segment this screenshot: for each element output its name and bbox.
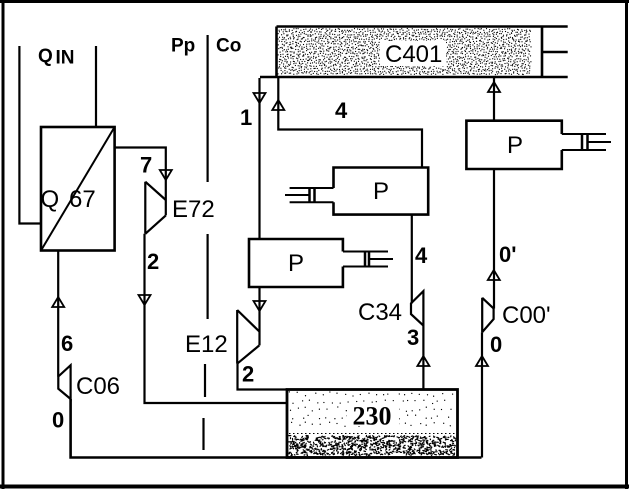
flow arrow [272, 100, 284, 110]
svg-text:6: 6 [61, 331, 73, 356]
svg-text:67: 67 [69, 186, 96, 213]
pump P left [249, 239, 343, 287]
wire right P down [493, 169, 495, 309]
wire QIN left [19, 46, 41, 224]
flow arrow [52, 297, 64, 307]
svg-text:4: 4 [415, 243, 428, 268]
wire P left out [258, 287, 260, 345]
svg-text:0: 0 [52, 408, 64, 433]
wire 1 line [258, 78, 260, 239]
flow arrow [254, 301, 266, 311]
pump P right [466, 121, 561, 169]
svg-text:Q: Q [41, 186, 60, 213]
valve C00' [482, 298, 493, 332]
wire 4 line top [278, 78, 422, 168]
wire C34 out [422, 326, 424, 390]
wire Pp/Co divider [207, 35, 209, 182]
flow arrow [488, 270, 500, 280]
flow arrow [476, 356, 488, 366]
flow arrow [160, 170, 172, 180]
svg-text:Q: Q [38, 46, 53, 67]
svg-text:P: P [373, 178, 389, 205]
flow arrow [488, 82, 500, 92]
svg-text:C401: C401 [385, 41, 442, 68]
pump P middle [334, 168, 429, 215]
valve C06 [58, 365, 70, 399]
wire QIN right [95, 46, 97, 127]
svg-text:C06: C06 [76, 373, 120, 400]
wire C06 out bottom [71, 399, 482, 458]
wire mid P out [411, 215, 413, 304]
svg-text:230: 230 [353, 402, 392, 431]
svg-text:0: 0 [490, 332, 502, 357]
svg-text:0': 0' [499, 242, 516, 267]
svg-text:4: 4 [335, 98, 348, 123]
valve 2 (E12) [237, 310, 259, 364]
svg-text:E72: E72 [172, 196, 215, 223]
valve C34 [411, 291, 423, 326]
block 230 [289, 392, 452, 426]
frame [0, 0, 629, 3]
wire C00' down [481, 332, 483, 457]
wire right P to C401 [493, 77, 495, 121]
svg-text:P: P [288, 250, 304, 277]
block C401 [278, 29, 531, 75]
svg-text:P: P [507, 132, 523, 159]
svg-text:Co: Co [216, 36, 241, 57]
wire Q67 down [57, 251, 59, 377]
svg-text:2: 2 [242, 362, 254, 387]
svg-text:C34: C34 [358, 299, 402, 326]
svg-text:1: 1 [240, 105, 252, 130]
svg-text:7: 7 [140, 153, 152, 178]
svg-text:3: 3 [407, 325, 419, 350]
svg-text:Pp: Pp [171, 36, 195, 57]
svg-text:2: 2 [147, 249, 159, 274]
flow arrow [417, 356, 429, 366]
wire Q67 to E72 [115, 148, 166, 216]
valve E72 [145, 182, 166, 234]
svg-text:C00': C00' [502, 302, 551, 329]
wire valve2 out [238, 364, 288, 390]
svg-text:IN: IN [56, 48, 75, 69]
flow arrow [254, 93, 266, 103]
wire E72 out [145, 234, 288, 403]
svg-text:E12: E12 [185, 331, 228, 358]
flow arrow [139, 295, 151, 305]
block Q/67 [41, 127, 115, 251]
